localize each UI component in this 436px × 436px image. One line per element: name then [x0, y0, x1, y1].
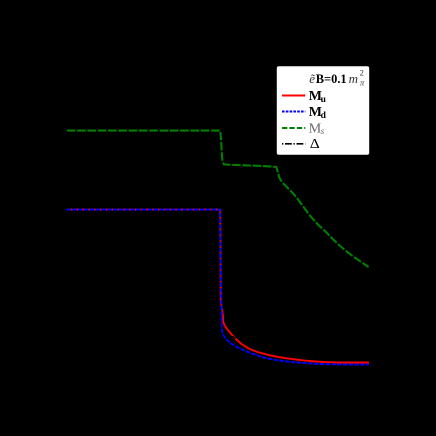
svg-text:s: s — [321, 127, 325, 137]
legend sample: green dashed line — [282, 127, 305, 129]
svg-text:m: m — [349, 71, 358, 86]
legend box — [277, 66, 369, 155]
svg-text:π: π — [360, 77, 365, 87]
curve M_d (blue dashed) — [67, 210, 370, 365]
svg-text:d: d — [321, 111, 327, 121]
legend sample: black dash-dot line — [282, 143, 305, 145]
svg-text:B=0.1: B=0.1 — [316, 72, 347, 86]
Delta curve crossing artifact (black dash cutting red curve) — [233, 336, 235, 339]
legend sample: blue dashed line — [282, 111, 305, 113]
legend sample: red solid line — [282, 95, 305, 97]
svg-text:2: 2 — [360, 67, 364, 77]
curve M_u (red solid) — [67, 210, 370, 363]
svg-text:u: u — [321, 95, 327, 105]
svg-text:Δ: Δ — [310, 136, 320, 151]
curve M_s (green dashed) — [67, 131, 369, 268]
